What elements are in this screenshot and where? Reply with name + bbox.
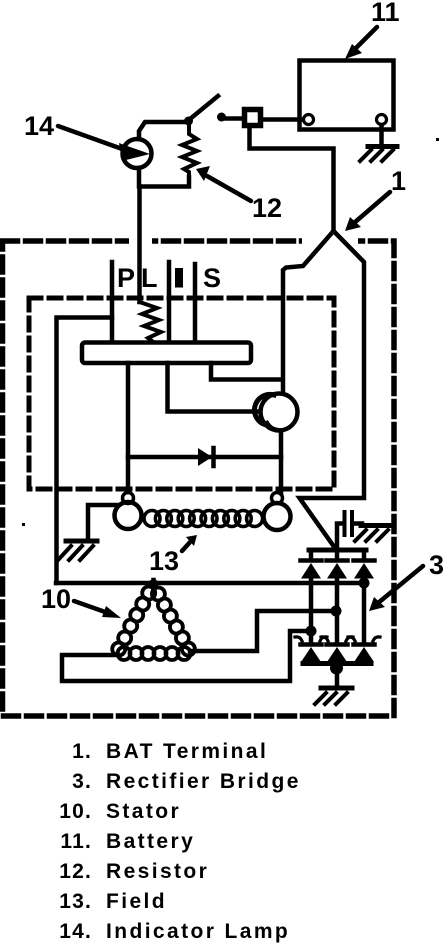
svg-text:11: 11 — [371, 0, 400, 27]
svg-text:S: S — [203, 263, 221, 293]
svg-text:P: P — [117, 263, 135, 293]
svg-text:12: 12 — [252, 193, 282, 223]
svg-text:10: 10 — [41, 584, 71, 614]
svg-text:3: 3 — [429, 550, 444, 580]
svg-text:14: 14 — [24, 111, 54, 141]
svg-text:13: 13 — [149, 546, 179, 576]
svg-text:L: L — [141, 263, 158, 293]
svg-text:1: 1 — [391, 166, 406, 196]
